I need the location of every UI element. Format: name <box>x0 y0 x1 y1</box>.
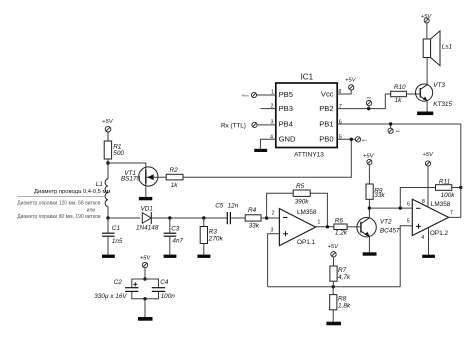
svg-text:1n5: 1n5 <box>112 238 123 245</box>
svg-text:33k: 33k <box>374 192 385 199</box>
wire speaker to +5V <box>426 23 428 39</box>
svg-text:+5V: +5V <box>345 77 357 83</box>
svg-text:Reset: Reset <box>242 93 249 97</box>
svg-text:IC1: IC1 <box>301 73 314 82</box>
svg-text:2: 2 <box>272 211 275 217</box>
svg-text:390k: 390k <box>295 199 310 206</box>
capacitor C3 <box>164 218 184 255</box>
svg-text:OP1.2: OP1.2 <box>430 230 449 237</box>
IC pin 6 wire PB1 <box>337 123 461 125</box>
wire node to VT1 drain <box>108 163 146 170</box>
node R1/VT1/L1 <box>106 161 109 164</box>
bottom reference wire <box>268 286 401 288</box>
svg-text:+5V: +5V <box>140 255 152 261</box>
terminal (PB2 aux) <box>366 97 372 109</box>
svg-text:LM358: LM358 <box>297 209 317 216</box>
svg-text:R10: R10 <box>394 84 406 91</box>
resistor R2 <box>166 167 183 189</box>
resistor R5 <box>293 183 310 205</box>
+5V supply symbol (Vcc) <box>345 77 357 90</box>
svg-text:LM358: LM358 <box>431 201 451 208</box>
+5V supply symbol (R1 top) <box>105 126 111 132</box>
VT3 emitter wire <box>426 101 428 112</box>
svg-text:C3: C3 <box>171 225 180 232</box>
svg-text:R6: R6 <box>335 217 344 224</box>
capacitor C5 <box>215 203 239 225</box>
svg-text:+5V: +5V <box>422 152 434 158</box>
svg-text:1N4148: 1N4148 <box>136 225 159 232</box>
svg-text:R8: R8 <box>338 295 347 302</box>
wire C2/C4 bottom rail <box>132 291 159 298</box>
transistor VT2 BC457 <box>357 218 400 237</box>
svg-text:PB3: PB3 <box>279 104 293 113</box>
op-amp OP1.1 output wire <box>316 226 334 228</box>
capacitor C1 <box>102 218 123 255</box>
svg-text:L1: L1 <box>96 181 104 188</box>
svg-text:1,2k: 1,2k <box>335 230 348 237</box>
svg-text:1,8k: 1,8k <box>338 303 351 310</box>
capacitor C2 (electrolytic) <box>94 279 138 300</box>
node R9/VT2/pin6 <box>368 206 371 209</box>
svg-text:Диаметр оправки 120 мм, 58 вит: Диаметр оправки 120 мм, 58 витков <box>17 201 101 207</box>
svg-text:R7: R7 <box>338 267 347 274</box>
svg-text:1k: 1k <box>395 97 403 104</box>
svg-text:4n7: 4n7 <box>172 237 183 244</box>
wire VD1 to C5 <box>151 217 227 219</box>
resistor R10 <box>391 84 407 104</box>
+5V supply symbol (R9 top) <box>363 153 375 184</box>
wire R11 to output column <box>452 187 461 189</box>
svg-text:вых: вых <box>362 139 367 142</box>
op-amp OP1.2 pin4 wire <box>428 227 430 254</box>
R11 feedback wire left <box>400 188 435 209</box>
svg-text:OP1.1: OP1.1 <box>297 239 316 246</box>
resistor R3 <box>200 218 223 255</box>
ground (VT3) <box>417 112 433 116</box>
svg-text:Rx (TTL): Rx (TTL) <box>221 122 246 129</box>
svg-text:R5: R5 <box>296 183 305 190</box>
ground (C3) <box>164 255 177 258</box>
svg-text:33k: 33k <box>249 222 260 229</box>
wire C5 to R4 <box>230 217 245 219</box>
svg-text:вых: вых <box>396 130 401 133</box>
wire main detect row <box>108 217 140 219</box>
svg-text:12n: 12n <box>228 203 239 210</box>
ground (C2/C4) <box>138 317 153 321</box>
+5V supply symbol (R7 top) <box>328 244 340 266</box>
ground (VT2) <box>363 252 377 255</box>
node output/R5/R6 <box>326 225 329 228</box>
svg-text:PB0: PB0 <box>319 135 333 144</box>
svg-text:C1: C1 <box>112 225 121 232</box>
IC pin 7 wire PB2 <box>337 94 391 109</box>
terminal (PB0 aux) <box>355 137 367 142</box>
svg-text:PB5: PB5 <box>279 90 293 99</box>
IC pin 1 wire <box>257 94 276 96</box>
svg-text:Диаметр оправки 80 мм, 190 вит: Диаметр оправки 80 мм, 190 витков <box>17 214 101 220</box>
resistor R8 <box>330 287 351 322</box>
VT3 collector wire <box>426 58 428 85</box>
svg-text:звук: звук <box>366 97 372 100</box>
svg-text:PB2: PB2 <box>319 104 333 113</box>
svg-text:KT315: KT315 <box>433 101 452 108</box>
svg-text:+5V: +5V <box>328 244 340 250</box>
terminal Rx (TTL) <box>221 122 257 129</box>
wire R1 to node <box>107 159 109 179</box>
svg-text:100k: 100k <box>441 192 456 199</box>
terminal (PB1 aux) <box>388 124 401 133</box>
VT2 collector wire <box>368 208 370 218</box>
svg-text:или: или <box>87 207 96 213</box>
ground (R8) <box>326 322 341 326</box>
svg-text:1: 1 <box>317 220 320 226</box>
svg-text:R4: R4 <box>248 207 257 214</box>
IC pin 8 wire <box>337 90 351 94</box>
ground (C1) <box>102 255 115 258</box>
svg-text:270k: 270k <box>208 236 224 243</box>
wire +5V to R1 <box>107 132 109 141</box>
svg-text:BS170: BS170 <box>121 176 141 183</box>
resistor R9 <box>366 184 385 208</box>
wire R6 to VT2 base <box>347 226 360 228</box>
IC pin 2 stub <box>261 108 276 110</box>
node R11 left <box>399 206 402 209</box>
wire R5 to output node <box>310 193 327 227</box>
resistor R6 <box>334 217 348 236</box>
node PB2 terminal <box>367 107 370 110</box>
svg-text:Диаметр провода 0,4-0,5 мм: Диаметр провода 0,4-0,5 мм <box>34 189 110 195</box>
svg-text:C2: C2 <box>114 279 123 286</box>
svg-text:5: 5 <box>407 218 410 224</box>
ground (R3) <box>197 255 210 258</box>
svg-text:Ls1: Ls1 <box>442 44 453 51</box>
svg-text:VD1: VD1 <box>141 206 154 213</box>
svg-text:VT3: VT3 <box>433 82 445 89</box>
node R3 <box>202 216 205 219</box>
transistor VT3 KT315 <box>416 82 453 108</box>
+5V supply symbol (C2/C4) <box>140 255 152 279</box>
output column wire <box>449 124 461 217</box>
svg-text:3: 3 <box>271 228 274 234</box>
svg-text:C5: C5 <box>215 203 224 210</box>
resistor R11 <box>436 179 456 200</box>
IC pin 3 wire <box>257 124 276 126</box>
feedback loop wire to R5 <box>267 193 294 218</box>
+5V supply symbol (speaker) <box>421 14 433 23</box>
IC IC1 ATTINY13 <box>270 73 342 159</box>
capacitor C4 <box>152 279 175 300</box>
node C2/C4 top <box>143 277 146 280</box>
svg-text:6: 6 <box>407 202 410 208</box>
inductor L1 <box>96 179 108 218</box>
wire node to op-amp pin6 <box>369 207 412 209</box>
svg-text:C4: C4 <box>160 279 169 286</box>
svg-text:GND: GND <box>279 135 296 144</box>
ground (OP1.2 pin4) <box>422 255 435 258</box>
svg-text:7: 7 <box>450 210 453 216</box>
ground (IC GND) <box>254 149 267 152</box>
node R4/R5/pin2 <box>265 216 268 219</box>
op-amp OP1.1 pin3 wire <box>268 234 280 287</box>
svg-text:R3: R3 <box>209 229 218 236</box>
IC pin 5 wire PB0 <box>337 138 355 140</box>
op-amp OP1.2 LM358 <box>407 199 453 241</box>
node R11/PB1/output <box>459 186 462 189</box>
wire R4 to op-amp pin2 <box>261 217 279 219</box>
node R7/R8 <box>332 285 335 288</box>
resistor R7 <box>330 266 351 287</box>
svg-text:4,7k: 4,7k <box>338 274 351 281</box>
svg-text:BC457: BC457 <box>380 227 400 234</box>
node PB1 terminal <box>389 122 392 125</box>
svg-text:PB1: PB1 <box>319 119 333 128</box>
IC pin 4 wire to ground <box>260 139 275 149</box>
wire to ground <box>144 299 146 317</box>
resistor R1 <box>104 141 111 159</box>
svg-text:R2: R2 <box>170 167 179 174</box>
node L1/C1/VD1 <box>106 216 109 219</box>
svg-text:ATTINY13: ATTINY13 <box>294 152 324 159</box>
node PB0/R2 <box>350 138 353 141</box>
node C3 <box>168 216 171 219</box>
coil annotation notes <box>17 189 111 220</box>
terminal RESET <box>242 92 257 97</box>
node C2/C4 bottom <box>143 297 146 300</box>
svg-text:100n: 100n <box>161 293 176 300</box>
op-amp OP1.2 pin5 wire <box>400 226 412 287</box>
svg-text:1k: 1k <box>171 182 179 189</box>
resistor R4 <box>245 207 261 229</box>
svg-text:Vcc: Vcc <box>321 89 334 98</box>
diode VD1 1N4148 <box>136 206 159 232</box>
speaker Ls1 <box>423 31 452 66</box>
+5V supply symbol (OP1.2 pin8) <box>422 152 434 207</box>
svg-text:330µ x 16V: 330µ x 16V <box>94 293 127 300</box>
svg-text:R11: R11 <box>439 179 451 186</box>
svg-text:+5V: +5V <box>102 119 114 125</box>
wire C2/C4 top rail <box>132 279 159 288</box>
ground (VT1 source) <box>139 197 152 200</box>
VT2 emitter wire <box>368 237 370 253</box>
wire R10 to VT3 base <box>406 93 420 95</box>
transistor VT1 BS170 <box>121 167 166 197</box>
power +5V rail R1 <box>102 119 146 179</box>
svg-text:PB4: PB4 <box>279 120 293 129</box>
svg-text:VT2: VT2 <box>380 219 392 226</box>
svg-text:4: 4 <box>421 235 424 241</box>
wire R2 to PB0 column <box>183 139 351 177</box>
svg-text:500: 500 <box>113 150 124 157</box>
svg-text:8: 8 <box>422 199 425 205</box>
svg-text:+5V: +5V <box>421 14 433 20</box>
svg-text:+5V: +5V <box>363 153 375 159</box>
op-amp OP1.1 LM358 <box>271 209 321 246</box>
